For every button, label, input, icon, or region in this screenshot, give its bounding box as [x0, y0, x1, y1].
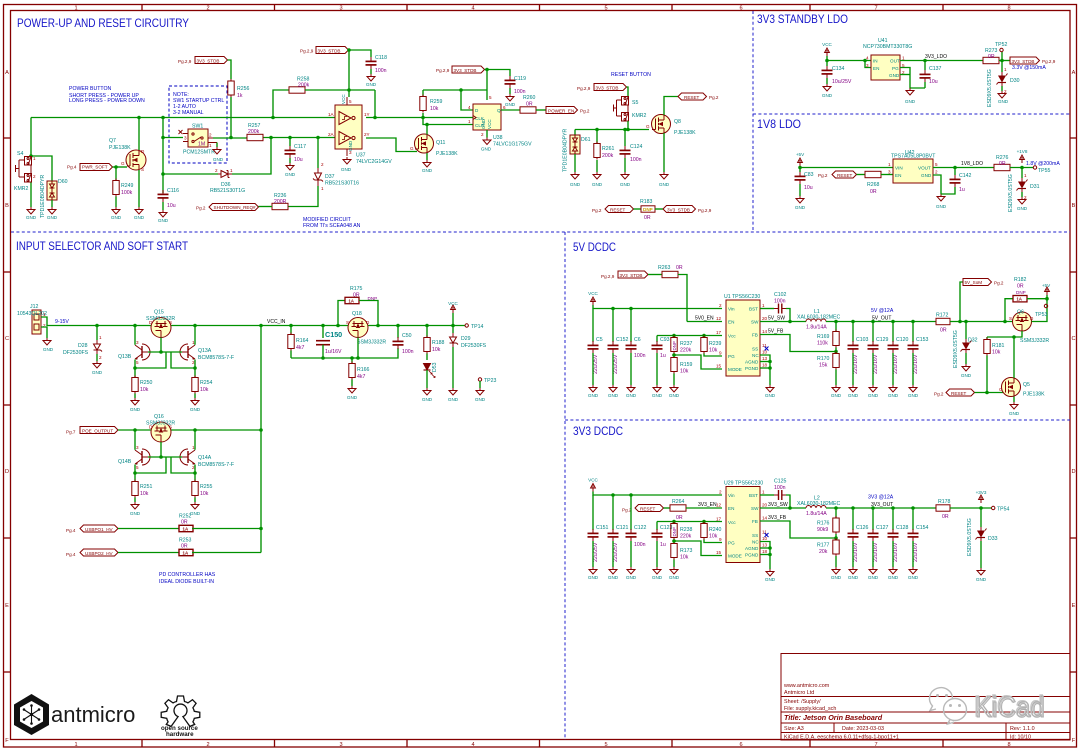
diode D36 RB521S30T1G [210, 168, 245, 194]
wire usbpo1 row [118, 528, 179, 530]
svg-text:C118: C118 [375, 55, 387, 61]
node c122 [629, 493, 633, 497]
svg-text:FB: FB [752, 333, 758, 338]
node c150 bus [321, 356, 325, 360]
hier label RESET u42 [818, 171, 857, 178]
svg-text:LONG PRESS - POWER DOWN: LONG PRESS - POWER DOWN [69, 98, 145, 104]
svg-text:1A: 1A [349, 299, 354, 304]
node s5 bottom [626, 128, 630, 132]
svg-text:GND: GND [659, 182, 670, 187]
ground under D33 [976, 541, 987, 582]
wire r258 to out line [374, 90, 376, 118]
svg-text:20k: 20k [819, 549, 828, 555]
svg-text:Pg.4: Pg.4 [66, 528, 76, 533]
wire x163 down [162, 118, 164, 194]
wire reset to q5 gate [975, 392, 1004, 394]
svg-text:Pg.2,9: Pg.2,9 [577, 86, 591, 91]
svg-text:2: 2 [481, 132, 484, 137]
svg-text:G: G [121, 161, 125, 166]
svg-text:GND: GND [888, 393, 899, 398]
svg-text:1u/16V: 1u/16V [325, 349, 342, 355]
node e13b [133, 366, 137, 370]
svg-text:22u/16V: 22u/16V [913, 354, 919, 374]
resistor R264 0R [664, 499, 723, 521]
ground under R177 [831, 556, 842, 580]
resistor R183 0R DNP [634, 199, 664, 221]
svg-text:GND: GND [652, 393, 663, 398]
capacitor C118 100n [366, 55, 388, 74]
resistor R239 10k [701, 336, 722, 354]
wire vcc to U41 [827, 56, 871, 61]
wire rail to Q7 drain [138, 118, 140, 151]
capacitor C116 10u [158, 188, 180, 209]
wire r164 to low bus [290, 351, 292, 359]
capacitor C128 22u/16V [888, 508, 909, 562]
wire q15 gate down [160, 338, 162, 353]
svg-text:PJE138K: PJE138K [674, 130, 696, 136]
diode D28 DF2530FS [63, 326, 102, 361]
resistor R252 0R [179, 514, 193, 532]
svg-text:C50: C50 [402, 333, 412, 339]
svg-text:GND: GND [608, 393, 619, 398]
svg-text:C124: C124 [630, 144, 643, 150]
svg-text:GND: GND [481, 118, 486, 129]
svg-text:TP54: TP54 [997, 507, 1010, 513]
svg-text:10u: 10u [294, 157, 303, 163]
svg-text:R164: R164 [296, 338, 309, 344]
svg-text:90k9: 90k9 [817, 527, 828, 533]
svg-text:1: 1 [33, 156, 36, 161]
ground under C128 [888, 541, 899, 580]
node r237 mode [672, 353, 676, 357]
wire L2 out [826, 507, 936, 509]
capacitor C152 22u/25V [608, 309, 629, 375]
svg-text:1: 1 [321, 186, 324, 191]
capacitor C117 10u [285, 138, 307, 164]
svg-text:Q13A: Q13A [198, 348, 212, 354]
svg-text:1: 1 [209, 143, 212, 148]
wire r236 in [259, 206, 273, 208]
wire r259 top rail [423, 89, 487, 91]
power VCC 3v3 [588, 478, 598, 492]
svg-text:6: 6 [739, 6, 742, 12]
svg-text:5: 5 [489, 95, 492, 100]
svg-text:Vin: Vin [728, 307, 735, 312]
wire q13b collector [134, 326, 136, 345]
svg-text:100k: 100k [121, 190, 133, 196]
resistor R259 10k [420, 90, 473, 125]
transistor Q13A BCM8578S-7-F [180, 340, 234, 365]
svg-text:R178: R178 [938, 499, 951, 505]
wire SW to L2 [760, 507, 806, 509]
svg-text:PG: PG [728, 354, 735, 359]
wire R256 to sw1 line [230, 97, 232, 138]
svg-text:RESET: RESET [951, 391, 967, 396]
node 3v3 out [979, 506, 983, 510]
svg-text:TPD1E0B04DPYR: TPD1E0B04DPYR [40, 174, 46, 218]
svg-text:Q5: Q5 [1023, 382, 1030, 388]
wire q16 gate down [160, 442, 162, 457]
svg-text:hardware: hardware [166, 731, 194, 738]
svg-text:VCC_IN: VCC_IN [267, 319, 286, 325]
wire mode [674, 355, 722, 369]
svg-text:2: 2 [99, 355, 102, 360]
svg-text:1A: 1A [328, 112, 335, 117]
svg-text:2: 2 [206, 742, 209, 748]
hier label 3V3_STDB U38 [436, 66, 485, 73]
node fb junction [834, 350, 838, 354]
node c150 rail [321, 324, 325, 328]
svg-text:C117: C117 [294, 144, 306, 150]
capacitor C125 100n [760, 479, 790, 509]
svg-text:POWER-UP AND RESET CIRCUITRY: POWER-UP AND RESET CIRCUITRY [17, 16, 189, 30]
svg-text:Title: Jetson Orin Baseboard: Title: Jetson Orin Baseboard [784, 713, 883, 722]
svg-text:0R: 0R [353, 293, 360, 299]
svg-text:Pg.2: Pg.2 [196, 206, 206, 211]
svg-text:TP55: TP55 [1038, 168, 1051, 174]
svg-text:C121: C121 [616, 525, 629, 531]
svg-text:12: 12 [716, 316, 722, 321]
svg-text:3: 3 [339, 742, 342, 748]
svg-text:1Y: 1Y [364, 112, 370, 117]
svg-text:TP14: TP14 [471, 324, 484, 330]
svg-text:R173: R173 [680, 548, 693, 554]
resistor R176 90k9 [817, 508, 839, 534]
ground under C118 [366, 69, 377, 87]
svg-text:R170: R170 [817, 356, 830, 362]
svg-text:D61: D61 [581, 137, 591, 143]
TITLE BLOCK [781, 654, 1070, 741]
svg-text:KMR2: KMR2 [632, 113, 647, 119]
svg-text:D: D [1071, 469, 1075, 475]
wire main rail [31, 117, 335, 119]
capacitor C6 100n [626, 309, 646, 360]
svg-text:3V3_SW: 3V3_SW [768, 502, 788, 508]
svg-text:DNP: DNP [643, 207, 653, 212]
wire c142 to gnd [941, 187, 955, 194]
test point TP53 [1035, 304, 1048, 318]
node c137 [923, 59, 927, 63]
svg-text:F: F [5, 738, 9, 744]
power VCC tp14 [448, 301, 458, 313]
svg-text:GND: GND [908, 575, 919, 580]
svg-text:GND: GND [620, 182, 631, 187]
svg-text:220k: 220k [680, 534, 692, 540]
node fb junction 3v3 [834, 536, 838, 540]
resistor R273 0R [983, 48, 999, 64]
svg-text:R237: R237 [680, 341, 693, 347]
node r238 mode [672, 539, 676, 543]
hier label RESET q5 [934, 389, 975, 397]
resistor R177 20k [817, 534, 839, 556]
svg-text:ESD9X5.0ST5G: ESD9X5.0ST5G [987, 69, 993, 107]
wire emitters to r251/r255 [134, 473, 136, 481]
svg-text:14: 14 [762, 329, 768, 334]
svg-text:GND: GND [831, 393, 842, 398]
wire poe row [118, 429, 261, 431]
svg-text:R181: R181 [992, 343, 1005, 349]
hier label RESET 3v3 [622, 505, 664, 513]
svg-text:220k: 220k [680, 348, 692, 354]
node q13a col [193, 324, 197, 328]
resistor R276 0R [994, 155, 1010, 171]
wire U41 out [900, 60, 983, 62]
svg-text:PGND: PGND [745, 553, 759, 558]
capacitor C134 10u/25V [822, 61, 852, 86]
resistor R238 220k DNP [671, 522, 693, 540]
test point TP54 [992, 506, 1010, 512]
wire main input rail [55, 325, 465, 327]
svg-text:1V8 LDO: 1V8 LDO [757, 117, 801, 131]
svg-text:U37: U37 [356, 153, 366, 159]
resistor R253 0R [179, 538, 193, 556]
svg-text:ESD9X5.0ST5G: ESD9X5.0ST5G [953, 330, 959, 368]
resistor R188 10k [424, 326, 445, 354]
node r175 right [376, 324, 380, 328]
wire r239 to PG [704, 354, 722, 357]
node c50 [396, 324, 400, 328]
wire rail to S4 [30, 118, 32, 157]
svg-text:BCM8578S-7-F: BCM8578S-7-F [198, 355, 234, 361]
wire r172 out [950, 321, 1013, 323]
svg-text:22u/16V: 22u/16V [853, 542, 859, 562]
svg-text:5: 5 [604, 6, 607, 12]
wire r181 down [986, 356, 988, 393]
svg-text:8: 8 [1007, 6, 1010, 12]
svg-text:POE_OUTPUT: POE_OUTPUT [82, 429, 113, 434]
svg-text:GND: GND [822, 93, 833, 98]
svg-text:200k: 200k [248, 129, 260, 135]
ground under D53 [422, 370, 433, 402]
svg-text:DNP: DNP [1016, 290, 1026, 295]
wire Q7 source to gnd [138, 170, 140, 207]
svg-text:RESET: RESET [610, 208, 626, 213]
wire vcc pin line [657, 335, 722, 337]
transistor Q5 PJE138K [999, 378, 1045, 398]
svg-text:Size: A3: Size: A3 [784, 726, 804, 732]
svg-text:C102: C102 [774, 292, 787, 298]
svg-text:Q13B: Q13B [118, 354, 132, 360]
switch S4 [16, 157, 32, 183]
svg-text:2A: 2A [328, 132, 335, 137]
hier label 3V3_STDB S5 [577, 84, 627, 92]
wire vcc rail 5v [593, 305, 722, 309]
svg-text:Q15: Q15 [154, 310, 164, 316]
ground under R251 [130, 498, 141, 517]
svg-text:GND: GND [570, 182, 581, 187]
note PD CONTROLLER [159, 572, 216, 585]
transistor Q15 SSM3J332R [146, 310, 175, 338]
svg-text:C6: C6 [634, 337, 641, 343]
diode D29 DF2530FS [450, 326, 487, 350]
svg-text:USBPO1_HV: USBPO1_HV [85, 527, 114, 532]
node d37 top [316, 136, 320, 140]
svg-text:GND: GND [26, 215, 37, 220]
ground under Q11 [422, 160, 433, 173]
node c120 [891, 320, 895, 324]
svg-text:10k: 10k [709, 534, 718, 540]
node agnd29 [768, 546, 772, 550]
svg-text:10k: 10k [200, 387, 209, 393]
KiCad watermark logo [930, 688, 967, 724]
svg-text:3: 3 [349, 150, 352, 155]
svg-text:S: S [141, 167, 144, 172]
resistor R173 10k [671, 540, 693, 561]
svg-text:100n: 100n [630, 157, 642, 163]
svg-text:GND: GND [588, 393, 599, 398]
regulator U42 TPS7A05L8P0BVT [888, 150, 938, 183]
svg-text:BCM8578S-7-F: BCM8578S-7-F [198, 462, 234, 468]
wire vcc to rail [452, 313, 454, 326]
resistor R268 0R [865, 171, 881, 195]
node q13b col [133, 324, 137, 328]
ground under R254 [190, 394, 201, 413]
wire U42 gnd [933, 175, 941, 194]
svg-text:R250: R250 [140, 380, 153, 386]
node pgnd29 [768, 553, 772, 557]
wire usbpo2 row [118, 552, 179, 554]
node r261 [595, 128, 599, 132]
hier label 3V3_STDB C118 [300, 47, 349, 54]
svg-text:10k: 10k [430, 106, 439, 112]
svg-text:Pg.4: Pg.4 [66, 552, 76, 557]
hier label 5V_SoM [960, 279, 1004, 322]
node d29 [451, 324, 455, 328]
svg-text:1: 1 [468, 119, 471, 124]
ground under C83 [795, 184, 806, 210]
svg-text:F: F [1072, 738, 1076, 744]
wire U37 1Y out [366, 117, 473, 119]
svg-text:NCP730BMT330T8G: NCP730BMT330T8G [863, 44, 912, 50]
svg-text:3V3 @12A: 3V3 @12A [868, 495, 894, 501]
svg-text:5: 5 [136, 465, 139, 470]
svg-text:3: 3 [136, 445, 139, 450]
svg-text:1A: 1A [183, 527, 189, 532]
svg-text:D33: D33 [988, 536, 998, 542]
svg-text:Pg.2,9: Pg.2,9 [178, 59, 192, 64]
svg-text:1: 1 [1004, 67, 1007, 72]
resistor R170 15k [817, 348, 839, 370]
svg-text:10k: 10k [680, 555, 689, 561]
wire 3v3stdb to U38 vcc / C119 [485, 70, 511, 77]
node r238 vcc [672, 520, 676, 524]
svg-text:10u: 10u [804, 185, 813, 191]
svg-text:J12: J12 [30, 304, 38, 310]
capacitor C150 1u/16V [316, 326, 342, 359]
svg-text:1: 1 [762, 490, 765, 495]
wire J12 pin2 to gnd [41, 327, 47, 338]
ground under C154 [908, 541, 919, 580]
svg-text:R261: R261 [602, 146, 615, 152]
wire emitters to resistors [134, 368, 136, 377]
node R256 bottom [229, 136, 233, 140]
svg-text:GND: GND [111, 215, 122, 220]
wire mode 3v3 [674, 541, 722, 556]
wire 3V3_STDB to R256 [228, 60, 232, 79]
svg-text:S: S [169, 425, 172, 430]
svg-text:5V_SW: 5V_SW [768, 316, 785, 322]
ground under D61 [570, 154, 581, 187]
svg-text:C142: C142 [959, 173, 972, 179]
svg-text:5: 5 [349, 99, 352, 104]
resistor R255 10k [192, 480, 213, 498]
wire q5 source gnd [1013, 397, 1015, 403]
svg-text:GND: GND [130, 407, 141, 412]
svg-text:D30: D30 [1010, 78, 1020, 84]
svg-text:BST: BST [749, 493, 758, 498]
svg-text:A: A [1072, 70, 1076, 76]
svg-text:3V3_STDB: 3V3_STDB [620, 273, 643, 278]
svg-text:SW: SW [751, 506, 759, 511]
svg-text:R169: R169 [817, 334, 830, 340]
svg-text:TP52: TP52 [995, 42, 1008, 48]
svg-text:GND: GND [998, 99, 1009, 104]
svg-text:PD CONTROLLER HAS: PD CONTROLLER HAS [159, 572, 216, 578]
svg-text:Q11: Q11 [436, 140, 446, 146]
svg-text:GND: GND [366, 82, 377, 87]
svg-text:Vcc: Vcc [728, 334, 736, 339]
power +1V8 [1017, 149, 1028, 163]
svg-text:EN: EN [728, 320, 734, 325]
wire q13a emitter cross [171, 352, 195, 368]
inductor L2 XAL6030-182MEC [797, 496, 841, 518]
svg-text:0R: 0R [676, 515, 683, 521]
svg-text:200k: 200k [602, 153, 614, 159]
node S4 junction [29, 154, 33, 158]
transistor Q11 PJE138K [410, 134, 458, 157]
svg-text:3V3 STANDBY LDO: 3V3 STANDBY LDO [757, 12, 848, 26]
svg-text:1u: 1u [660, 353, 666, 359]
wire Q11 source gnd [426, 153, 428, 160]
svg-text:C126: C126 [856, 525, 869, 531]
svg-text:2: 2 [33, 174, 36, 179]
svg-text:GND: GND [43, 347, 54, 352]
capacitor C5 22u/25V [588, 309, 603, 375]
resistor R236 200R [272, 193, 288, 210]
svg-text:SSM3J332R: SSM3J332R [357, 340, 386, 346]
svg-text:R177: R177 [817, 543, 830, 549]
diode D37 RB521S30T16 [313, 138, 359, 192]
resistor R263 0R [648, 265, 687, 322]
wire EN tie [865, 61, 871, 68]
node bst sw 3v3 [788, 506, 792, 510]
svg-text:S: S [1009, 316, 1012, 321]
svg-text:22u/25V: 22u/25V [613, 542, 619, 562]
node c124 [623, 128, 627, 132]
node d36 right [269, 136, 273, 140]
node q15 gate base line [159, 350, 163, 354]
svg-text:C125: C125 [774, 479, 787, 485]
node r175 left [336, 324, 340, 328]
svg-text:GND: GND [626, 575, 637, 580]
svg-text:5V_SoM: 5V_SoM [965, 280, 983, 285]
power +5V q6 [1042, 283, 1051, 295]
svg-text:GND: GND [190, 511, 201, 516]
svg-text:1: 1 [888, 162, 891, 167]
svg-text:100n: 100n [774, 299, 786, 305]
svg-text:7: 7 [874, 6, 877, 12]
svg-text:VCC: VCC [487, 119, 492, 129]
svg-text:GND: GND [848, 575, 859, 580]
svg-text:3.3V @150mA: 3.3V @150mA [1012, 65, 1046, 71]
svg-text:22u/25V: 22u/25V [593, 542, 599, 562]
node en tie [863, 59, 867, 63]
svg-text:4: 4 [468, 105, 471, 110]
svg-text:22u/16V: 22u/16V [893, 542, 899, 562]
svg-text:Pg.2: Pg.2 [592, 208, 602, 213]
svg-text:R251: R251 [140, 484, 153, 490]
svg-text:+5V: +5V [796, 152, 805, 157]
